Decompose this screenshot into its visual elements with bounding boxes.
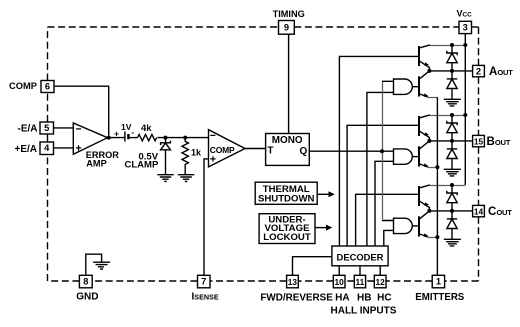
svg-text:8: 8 bbox=[83, 277, 88, 287]
node: B emitter junction bbox=[435, 165, 439, 169]
wire pin4 to error amp noninverting input bbox=[54, 147, 74, 149]
node: B rail zener junction bbox=[450, 113, 454, 117]
node: A output junction bbox=[427, 69, 431, 73]
svg-text:3: 3 bbox=[463, 23, 468, 33]
and-gate C bbox=[394, 218, 413, 233]
svg-text:COMP: COMP bbox=[9, 81, 37, 91]
dashed IC boundary top-right stub bbox=[472, 26, 479, 28]
wire A output line bbox=[429, 70, 472, 72]
dashed IC boundary bottom bbox=[48, 280, 479, 282]
and-gate B bbox=[394, 149, 413, 164]
block DECODER bbox=[332, 246, 388, 266]
pin 15 Bout bbox=[473, 135, 485, 146]
svg-text:15: 15 bbox=[474, 137, 484, 147]
node: B zener junction bbox=[450, 139, 454, 143]
ground (clamp) bbox=[157, 175, 173, 182]
wire pin6 to error amp output node bbox=[54, 86, 109, 135]
zener diode C high-side bbox=[447, 185, 457, 211]
wire EMITTERS vertical to pin 1 bbox=[436, 97, 438, 275]
and-gate A bbox=[394, 79, 413, 94]
svg-text:HA: HA bbox=[335, 293, 349, 304]
node: B rail Vcc junction bbox=[463, 113, 467, 117]
node: A zener junction bbox=[450, 69, 454, 73]
wire C emitter stub bbox=[428, 237, 437, 239]
transistor QC1 (C source) bbox=[419, 185, 430, 211]
svg-text:11: 11 bbox=[356, 277, 365, 287]
svg-text:Q: Q bbox=[300, 146, 308, 157]
svg-text:AOUT: AOUT bbox=[489, 66, 513, 78]
wire battery to 4k resistor bbox=[130, 137, 138, 139]
pin 10 HA bbox=[333, 275, 345, 288]
svg-text:4k: 4k bbox=[141, 123, 152, 134]
svg-text:COUT: COUT bbox=[488, 206, 512, 218]
svg-text:5: 5 bbox=[44, 123, 49, 133]
wire decoder to gate A input bbox=[367, 92, 394, 246]
svg-text:+: + bbox=[114, 129, 119, 139]
transistor QA1 (A source) bbox=[419, 45, 430, 71]
pin 2 Aout bbox=[473, 65, 485, 76]
pin 6 COMP bbox=[41, 81, 54, 93]
svg-text:COMP: COMP bbox=[210, 145, 235, 155]
svg-text:HALL INPUTS: HALL INPUTS bbox=[331, 306, 397, 317]
zener diode 0.5V CLAMP bbox=[165, 138, 167, 143]
pin 5 -E/A bbox=[40, 122, 54, 134]
svg-text:HB: HB bbox=[357, 293, 371, 304]
transistor QB2 (B sink) bbox=[419, 141, 429, 167]
wire decoder to B-phase source base bbox=[347, 125, 418, 246]
node: chopper bus junction bbox=[380, 149, 384, 153]
pin 4 +E/A bbox=[40, 142, 54, 155]
block UNDER-VOLTAGE LOCKOUT bbox=[259, 214, 315, 244]
svg-text:FWD/REVERSE: FWD/REVERSE bbox=[260, 292, 333, 303]
node: clamp junction bbox=[164, 136, 168, 140]
svg-text:-: - bbox=[131, 127, 134, 137]
svg-text:-E/A: -E/A bbox=[18, 124, 38, 135]
svg-text:TIMING: TIMING bbox=[273, 9, 305, 19]
dashed IC boundary top bbox=[48, 27, 479, 281]
wire chopper bus (MONO Q) to gate A and gate C bbox=[382, 82, 384, 220]
wire B collector rail bbox=[430, 115, 465, 117]
wire TIMING pin9 to MONO bbox=[288, 34, 290, 133]
resistor 1k bbox=[182, 138, 188, 175]
zener diode A high-side bbox=[447, 45, 457, 71]
svg-text:BOUT: BOUT bbox=[487, 136, 511, 148]
svg-text:1V: 1V bbox=[121, 122, 132, 132]
dashed IC boundary left bbox=[47, 27, 49, 281]
pin 8 GND bbox=[79, 275, 92, 288]
wire B emitter stub bbox=[428, 167, 437, 169]
wire pin11 to decoder bbox=[359, 266, 361, 276]
wire between pin5 and pin4 bbox=[47, 134, 49, 142]
node: 1k junction bbox=[183, 136, 187, 140]
wire decoder to gate C input bbox=[384, 230, 394, 246]
wire A collector rail bbox=[430, 45, 465, 47]
pin 13 FWD/REVERSE bbox=[287, 275, 299, 288]
wire Vcc rail vertical bbox=[464, 34, 466, 185]
wire pin13 to decoder bbox=[293, 257, 332, 276]
wire comparator output to MONO T input bbox=[245, 148, 266, 150]
diode B low-side bbox=[447, 141, 457, 169]
svg-text:13: 13 bbox=[288, 277, 298, 287]
svg-text:1: 1 bbox=[436, 277, 441, 287]
pin 7 Isense bbox=[198, 275, 211, 288]
transistor QC2 (C sink) bbox=[419, 211, 429, 237]
one-shot MONO bbox=[266, 134, 310, 166]
transistor QB1 (B source) bbox=[419, 115, 430, 141]
svg-text:9: 9 bbox=[284, 23, 289, 33]
svg-text:10: 10 bbox=[334, 277, 344, 287]
svg-text:GND: GND bbox=[76, 292, 98, 303]
svg-text:SHUTDOWN: SHUTDOWN bbox=[258, 194, 315, 205]
op-amp ERROR AMP bbox=[73, 123, 107, 154]
op-amp COMP comparator bbox=[209, 130, 246, 167]
wire Isense pin7 to comparator + input bbox=[204, 159, 208, 275]
node: A rail Vcc junction bbox=[463, 43, 467, 47]
svg-text:CLAMP: CLAMP bbox=[125, 160, 159, 171]
svg-text:2: 2 bbox=[476, 67, 481, 77]
pin 12 HC bbox=[374, 275, 386, 288]
ground (A low-side diode) bbox=[444, 99, 461, 106]
diode A low-side bbox=[447, 71, 457, 99]
svg-text:6: 6 bbox=[45, 82, 50, 92]
ground (1k) bbox=[178, 175, 194, 182]
wire pin5 to error amp inverting input bbox=[54, 127, 74, 129]
node: A rail zener junction bbox=[450, 43, 454, 47]
svg-text:7: 7 bbox=[201, 277, 206, 287]
wire C collector rail bbox=[430, 185, 465, 187]
node: C emitter junction bbox=[435, 235, 439, 239]
svg-text:HC: HC bbox=[377, 293, 391, 304]
svg-text:AMP: AMP bbox=[86, 159, 106, 169]
pin 9 TIMING bbox=[279, 21, 295, 35]
node: C zener junction bbox=[450, 209, 454, 213]
node: B output junction bbox=[427, 139, 431, 143]
svg-text:ISENSE: ISENSE bbox=[192, 292, 219, 303]
svg-text:DECODER: DECODER bbox=[337, 252, 384, 263]
wire pin12 to decoder bbox=[379, 266, 381, 276]
dashed IC boundary right bbox=[478, 27, 480, 281]
wire pin8 to ground symbol bbox=[86, 254, 102, 275]
svg-text:+E/A: +E/A bbox=[15, 144, 38, 155]
battery 1V bbox=[111, 132, 125, 142]
ground (GND pin) bbox=[93, 262, 110, 269]
wire thermal shutdown arrow bbox=[317, 193, 329, 195]
wire decoder to A-phase source base bbox=[339, 56, 418, 246]
svg-text:EMITTERS: EMITTERS bbox=[415, 292, 465, 303]
block THERMAL SHUTDOWN bbox=[255, 182, 317, 204]
wire under-voltage lockout arrow bbox=[315, 227, 327, 229]
wire decoder to C-phase source base bbox=[356, 194, 419, 246]
wire decoder to gate B input bbox=[375, 161, 394, 246]
wire A emitter stub bbox=[428, 97, 437, 99]
svg-text:T: T bbox=[267, 146, 273, 157]
pin 11 HB bbox=[354, 275, 365, 288]
svg-text:MONO: MONO bbox=[272, 135, 303, 146]
pin 1 EMITTERS bbox=[432, 275, 444, 288]
diode C low-side bbox=[447, 211, 457, 239]
wire B output line bbox=[429, 140, 472, 142]
wire pin10 to decoder bbox=[338, 266, 340, 276]
resistor 4k bbox=[138, 134, 157, 140]
transistor QA2 (A sink) bbox=[419, 71, 429, 97]
ground (B low-side diode) bbox=[444, 169, 461, 176]
node: C rail zener junction bbox=[450, 183, 454, 187]
svg-text:4: 4 bbox=[44, 143, 50, 153]
svg-text:LOCKOUT: LOCKOUT bbox=[263, 232, 311, 243]
zener diode B high-side bbox=[447, 115, 457, 141]
node: error amp output junction bbox=[107, 136, 111, 140]
svg-text:1k: 1k bbox=[191, 148, 202, 158]
wire C output line bbox=[429, 210, 472, 212]
wire 4k to comparator input with node junctions bbox=[158, 137, 209, 139]
wire MONO Q output to gates bbox=[309, 150, 393, 152]
svg-text:14: 14 bbox=[474, 207, 484, 217]
pin 3 Vcc bbox=[459, 21, 472, 33]
pin 14 Cout bbox=[473, 205, 485, 216]
node: C output junction bbox=[427, 209, 431, 213]
ground (C low-side diode) bbox=[444, 239, 461, 246]
svg-text:12: 12 bbox=[375, 277, 385, 287]
